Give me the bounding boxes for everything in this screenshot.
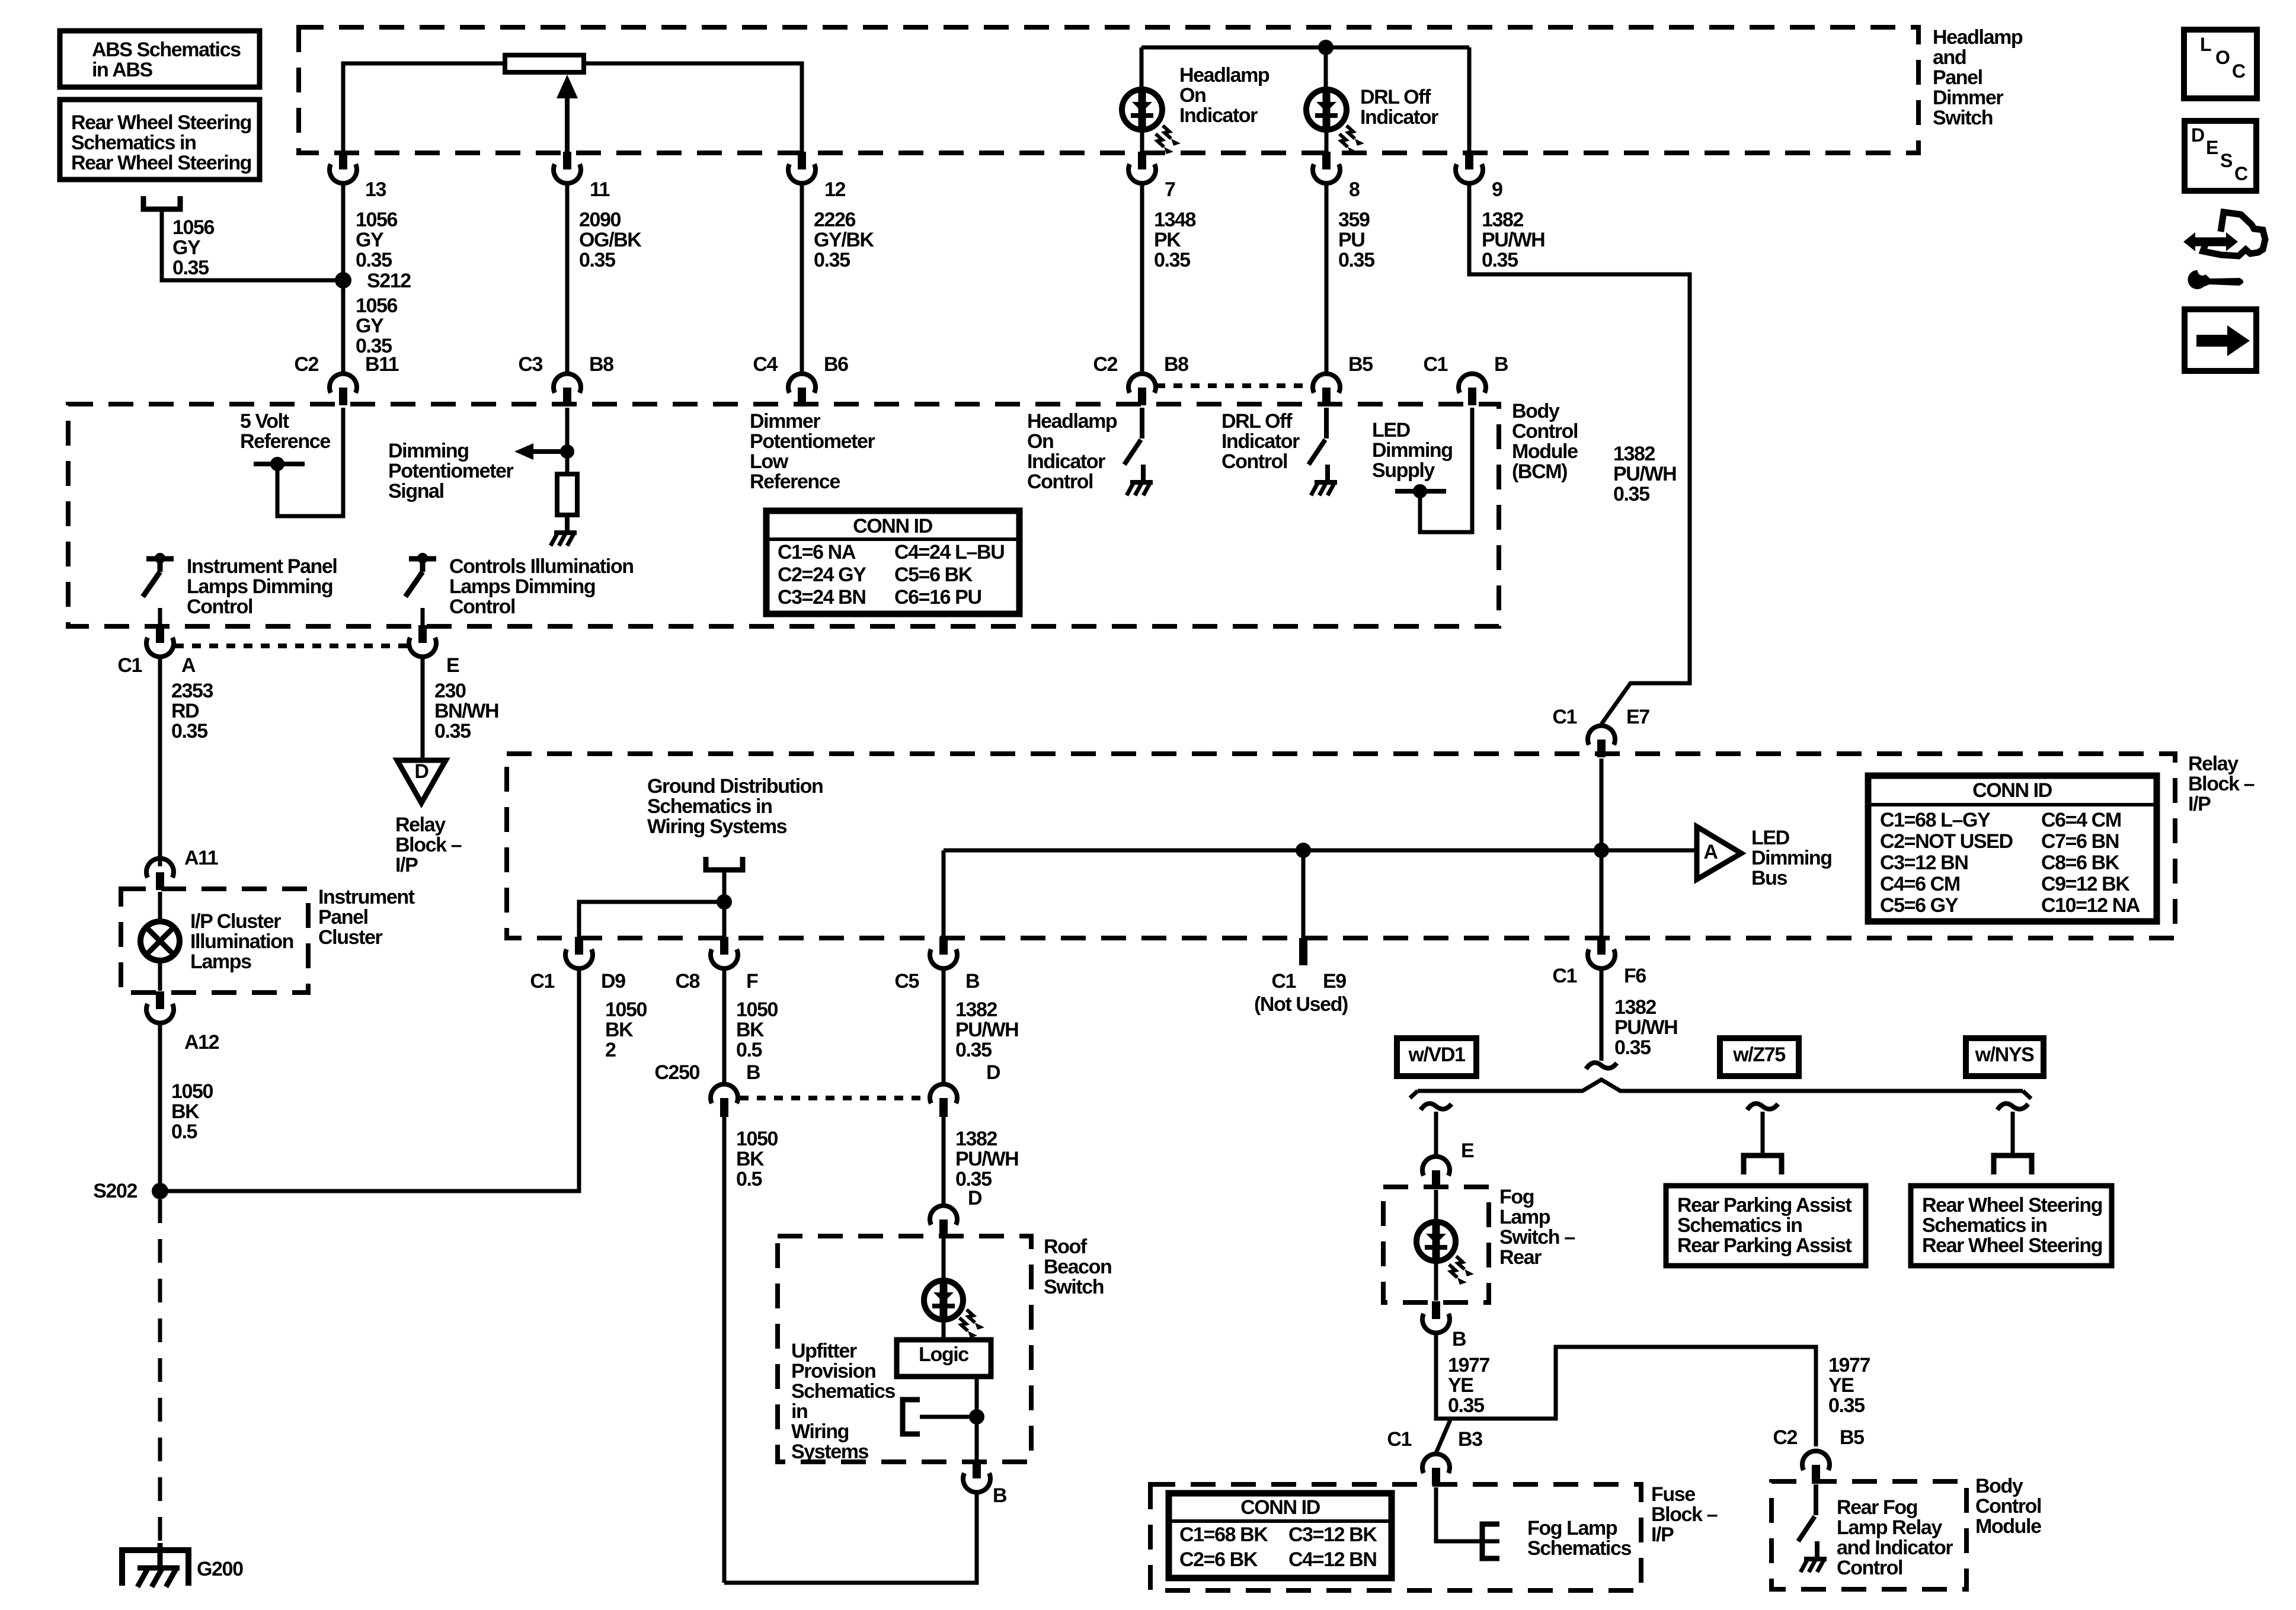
connector B below roof beacon switch bbox=[973, 1461, 981, 1478]
svg-text:0.35: 0.35 bbox=[1614, 1036, 1651, 1059]
svg-text:S202: S202 bbox=[93, 1180, 137, 1202]
svg-text:Block –: Block – bbox=[395, 834, 462, 856]
connector D into roof beacon switch bbox=[939, 1219, 948, 1237]
svg-text:Instrument: Instrument bbox=[318, 886, 415, 908]
svg-text:C2=NOT USED: C2=NOT USED bbox=[1880, 830, 2013, 853]
dotted link C2/B8 to B5 bbox=[1156, 383, 1312, 388]
svg-text:C3: C3 bbox=[518, 353, 542, 376]
svg-text:Rear Parking Assist: Rear Parking Assist bbox=[1677, 1234, 1851, 1257]
svg-text:1348: 1348 bbox=[1154, 209, 1196, 231]
squiggle w/Z75 branch bbox=[1747, 1103, 1778, 1110]
svg-text:Control: Control bbox=[449, 596, 515, 618]
svg-text:5 Volt: 5 Volt bbox=[240, 410, 289, 433]
triangle reference A (led dimming bus) bbox=[1697, 827, 1741, 879]
svg-text:YE: YE bbox=[1448, 1374, 1473, 1397]
off-page bracket ground distribution bbox=[706, 857, 743, 870]
svg-text:(Not Used): (Not Used) bbox=[1254, 993, 1348, 1016]
svg-text:0.35: 0.35 bbox=[434, 720, 471, 742]
LED Headlamp On Indicator bbox=[1122, 89, 1162, 130]
dashed box: Fog Lamp Switch - Rear bbox=[1383, 1187, 1489, 1302]
reference box: Rear Wheel Steering Schematics bbox=[60, 100, 260, 180]
svg-text:BK: BK bbox=[736, 1148, 765, 1170]
svg-text:Rear: Rear bbox=[1499, 1246, 1542, 1269]
svg-text:C10=12 NA: C10=12 NA bbox=[2041, 894, 2140, 917]
connector E below BCM bbox=[418, 625, 427, 643]
option box w/VD1 bbox=[1397, 1038, 1476, 1076]
svg-text:A: A bbox=[181, 654, 196, 677]
svg-text:2: 2 bbox=[605, 1039, 616, 1061]
LED light arrows (roof beacon) bbox=[967, 1310, 975, 1323]
svg-text:Indicator: Indicator bbox=[1179, 104, 1258, 127]
svg-text:D: D bbox=[2191, 124, 2204, 146]
svg-text:D9: D9 bbox=[601, 970, 625, 993]
svg-text:D: D bbox=[414, 760, 428, 783]
node bus junction E9 bbox=[1296, 843, 1311, 858]
bracket rear parking assist bbox=[1744, 1156, 1782, 1174]
svg-text:D: D bbox=[968, 1187, 982, 1209]
connector C3/B8 into BCM bbox=[563, 388, 571, 405]
svg-text:A12: A12 bbox=[184, 1031, 219, 1054]
svg-text:1382: 1382 bbox=[955, 998, 997, 1021]
conn id table (relay block) bbox=[1868, 776, 2157, 921]
svg-text:A: A bbox=[1703, 841, 1718, 863]
svg-text:1382: 1382 bbox=[1482, 209, 1524, 231]
svg-text:0.5: 0.5 bbox=[171, 1121, 197, 1143]
svg-text:C3=12 BN: C3=12 BN bbox=[1880, 852, 1968, 874]
connector C1/F6 below relay block bbox=[1597, 937, 1606, 955]
svg-text:Headlamp: Headlamp bbox=[1179, 64, 1269, 87]
svg-text:Rear Fog: Rear Fog bbox=[1837, 1496, 1917, 1519]
svg-text:GY: GY bbox=[356, 315, 384, 337]
potentiometer resistor bbox=[505, 55, 584, 72]
LED light arrows (drl off) bbox=[1347, 126, 1355, 139]
svg-text:Module: Module bbox=[1512, 440, 1578, 463]
dotted link C1/A to E bbox=[175, 644, 409, 648]
svg-text:230: 230 bbox=[434, 680, 466, 702]
svg-text:0.5: 0.5 bbox=[736, 1039, 762, 1061]
wire lamp leads bbox=[158, 892, 162, 921]
svg-text:B5: B5 bbox=[1348, 353, 1373, 376]
svg-text:(BCM): (BCM) bbox=[1512, 460, 1567, 483]
connector C1/D9 below relay block bbox=[575, 937, 583, 955]
svg-text:Beacon: Beacon bbox=[1044, 1256, 1111, 1278]
svg-text:1977: 1977 bbox=[1828, 1354, 1870, 1377]
svg-text:PU/WH: PU/WH bbox=[955, 1148, 1018, 1170]
node S202 bbox=[152, 1183, 168, 1199]
connector E fog lamp switch bbox=[1432, 1170, 1440, 1188]
svg-text:A11: A11 bbox=[184, 847, 218, 869]
svg-text:Fog Lamp: Fog Lamp bbox=[1527, 1517, 1617, 1539]
connector pin 8 bbox=[1322, 152, 1331, 169]
svg-text:Lamps Dimming: Lamps Dimming bbox=[449, 575, 595, 598]
wire headlamp indicator feed bbox=[1141, 46, 1469, 50]
svg-text:Indicator: Indicator bbox=[1027, 450, 1105, 473]
svg-text:Rear Parking Assist: Rear Parking Assist bbox=[1677, 1194, 1851, 1217]
svg-text:w/VD1: w/VD1 bbox=[1408, 1044, 1465, 1066]
wire ground distribution to junction bbox=[722, 870, 727, 938]
svg-text:Block –: Block – bbox=[1651, 1503, 1718, 1526]
svg-text:Ground Distribution: Ground Distribution bbox=[647, 775, 823, 798]
svg-text:Headlamp: Headlamp bbox=[1027, 410, 1117, 433]
connector pin 13 bbox=[339, 152, 347, 169]
wire 1050 BK 0.5 to S202 bbox=[158, 1023, 162, 1191]
svg-text:C5=6 GY: C5=6 GY bbox=[1880, 894, 1959, 917]
wire 1382 PU/WH below D bbox=[942, 1117, 946, 1204]
svg-text:ABS Schematics: ABS Schematics bbox=[92, 39, 241, 61]
svg-text:1050: 1050 bbox=[736, 1128, 778, 1150]
svg-text:C9=12 BK: C9=12 BK bbox=[2041, 873, 2130, 895]
svg-text:Rear Wheel Steering: Rear Wheel Steering bbox=[1922, 1234, 2102, 1257]
svg-text:S: S bbox=[2220, 150, 2233, 171]
fog lamp schematics bracket bbox=[1482, 1524, 1499, 1558]
conn id table (fuse block) bbox=[1169, 1493, 1392, 1578]
wire D pin to LED bbox=[942, 1238, 946, 1280]
svg-text:C1=6 NA: C1=6 NA bbox=[778, 541, 856, 564]
svg-text:Panel: Panel bbox=[318, 906, 368, 929]
svg-text:359: 359 bbox=[1338, 209, 1370, 231]
svg-text:Schematics: Schematics bbox=[1527, 1537, 1631, 1560]
wire 5V ref to pin B11 bbox=[277, 408, 343, 516]
svg-text:1056: 1056 bbox=[356, 209, 398, 231]
svg-text:C4=6 CM: C4=6 CM bbox=[1880, 873, 1960, 895]
ground (rear fog relay) bbox=[1815, 1541, 1819, 1559]
wire w/NYS branch bbox=[2011, 1112, 2015, 1156]
switch: drl off indicator control bbox=[1324, 408, 1329, 438]
svg-text:Provision: Provision bbox=[791, 1360, 875, 1382]
wire pot left lead to pin 13 bbox=[343, 63, 505, 153]
svg-text:0.35: 0.35 bbox=[579, 249, 615, 271]
dotted link C250/B to D bbox=[740, 1096, 929, 1100]
connector C1/E7 into relay block bbox=[1597, 740, 1606, 757]
svg-text:Block –: Block – bbox=[2188, 773, 2255, 795]
node junction upfitter bbox=[969, 1409, 984, 1425]
svg-text:C3=24 BN: C3=24 BN bbox=[778, 586, 866, 609]
svg-text:Signal: Signal bbox=[388, 480, 444, 502]
svg-text:LED: LED bbox=[1751, 827, 1790, 849]
svg-text:C4=12 BN: C4=12 BN bbox=[1288, 1548, 1377, 1571]
wire 1382 PU/WH to conn D bbox=[942, 968, 946, 1084]
svg-text:Relay: Relay bbox=[395, 814, 446, 836]
svg-text:C1: C1 bbox=[1271, 970, 1296, 993]
svg-text:G200: G200 bbox=[197, 1558, 243, 1580]
reference box: Rear Wheel Steering (bottom) bbox=[1911, 1186, 2112, 1266]
svg-text:Body: Body bbox=[1975, 1475, 2023, 1497]
svg-text:8: 8 bbox=[1349, 178, 1360, 201]
svg-text:Upfitter: Upfitter bbox=[791, 1340, 857, 1362]
svg-text:I/P: I/P bbox=[2188, 793, 2211, 815]
LED fog lamp switch bbox=[1416, 1222, 1456, 1261]
svg-text:Body: Body bbox=[1512, 400, 1560, 422]
svg-text:On: On bbox=[1027, 430, 1053, 453]
switch: headlamp on indicator control bbox=[1140, 408, 1144, 438]
connector pin 12 bbox=[798, 152, 806, 169]
svg-text:PK: PK bbox=[1154, 229, 1181, 251]
wire 1056 GY from bracket to S212 bbox=[162, 209, 343, 280]
connector D inline bbox=[930, 1084, 957, 1103]
svg-text:9: 9 bbox=[1492, 178, 1502, 201]
svg-text:1050: 1050 bbox=[171, 1080, 213, 1103]
node junction ground distribution bbox=[717, 894, 732, 910]
connector C4/B6 into BCM bbox=[798, 388, 806, 405]
svg-text:1382: 1382 bbox=[1614, 996, 1657, 1019]
svg-text:B: B bbox=[965, 970, 980, 993]
svg-text:RD: RD bbox=[171, 700, 199, 722]
connector A12 below IP cluster bbox=[156, 991, 164, 1009]
svg-text:Dimming: Dimming bbox=[1751, 847, 1832, 869]
svg-text:Schematics: Schematics bbox=[791, 1380, 895, 1403]
node junction on indicator feed bbox=[1318, 40, 1334, 55]
wire 1977 YE from fog B bbox=[1436, 1333, 1816, 1446]
svg-text:DRL Off: DRL Off bbox=[1221, 410, 1293, 433]
svg-text:PU: PU bbox=[1338, 229, 1364, 251]
svg-text:C1: C1 bbox=[1423, 353, 1447, 376]
svg-text:Bus: Bus bbox=[1751, 867, 1787, 889]
wire S202 to relay block ground pin bbox=[160, 969, 579, 1191]
svg-text:Indicator: Indicator bbox=[1221, 430, 1300, 453]
wire 1382 PU/WH from pin 9 to BCM area bbox=[1469, 183, 1690, 724]
resistor in BCM (dimming) bbox=[557, 474, 577, 515]
svg-text:Headlamp: Headlamp bbox=[1933, 26, 2023, 49]
connector C250/B inline bbox=[711, 1084, 738, 1103]
logic box bbox=[897, 1340, 991, 1377]
wire down to DRL Off LED bbox=[1324, 47, 1328, 89]
potentiometer wiper arrow bbox=[565, 95, 570, 153]
connector pin 11 bbox=[563, 152, 571, 169]
svg-text:0.5: 0.5 bbox=[736, 1168, 762, 1190]
wire 1056 GY pin13 to S212 bbox=[341, 183, 346, 372]
svg-text:C250: C250 bbox=[654, 1061, 699, 1084]
svg-text:C2=24 GY: C2=24 GY bbox=[778, 564, 866, 586]
svg-text:F: F bbox=[746, 970, 758, 993]
svg-text:BK: BK bbox=[171, 1100, 200, 1123]
svg-text:Lamp Relay: Lamp Relay bbox=[1837, 1516, 1942, 1539]
svg-text:BN/WH: BN/WH bbox=[434, 700, 498, 722]
upfitter bracket bbox=[903, 1400, 920, 1434]
wire 2226 GY/BK bbox=[800, 183, 804, 372]
svg-text:in ABS: in ABS bbox=[92, 59, 153, 81]
svg-text:C6=4 CM: C6=4 CM bbox=[2041, 809, 2121, 831]
svg-text:0.35: 0.35 bbox=[1448, 1394, 1484, 1417]
svg-text:7: 7 bbox=[1165, 178, 1175, 201]
svg-text:Switch: Switch bbox=[1933, 107, 1993, 129]
dimming potentiometer signal arrow bbox=[533, 449, 567, 454]
svg-text:E: E bbox=[446, 654, 459, 677]
svg-text:Control: Control bbox=[1512, 420, 1578, 443]
svg-text:Switch: Switch bbox=[1044, 1276, 1104, 1298]
connector C2/B8 into BCM (headlamp on) bbox=[1138, 388, 1146, 405]
svg-text:13: 13 bbox=[365, 178, 386, 201]
wire LED to logic box bbox=[942, 1320, 946, 1340]
option box w/NYS bbox=[1966, 1038, 2044, 1076]
icon box DESC bbox=[2185, 121, 2256, 191]
svg-text:B: B bbox=[746, 1061, 760, 1084]
svg-text:DRL Off: DRL Off bbox=[1360, 86, 1431, 108]
wire fog LED to box bottom bbox=[1434, 1262, 1438, 1301]
svg-text:B8: B8 bbox=[589, 353, 613, 376]
svg-text:and: and bbox=[1933, 46, 1966, 69]
dashed box: Fuse Block - I/P bbox=[1150, 1484, 1641, 1590]
ground (drl off control) bbox=[1325, 465, 1330, 482]
svg-text:Instrument Panel: Instrument Panel bbox=[187, 555, 337, 578]
wire break symbol bbox=[1586, 1062, 1617, 1069]
svg-text:YE: YE bbox=[1828, 1374, 1854, 1397]
connector C1/B into BCM (led dimming supply) bbox=[1468, 388, 1476, 405]
svg-text:Cluster: Cluster bbox=[318, 926, 383, 949]
connector C2/B5 into BCM (rear fog) bbox=[1812, 1465, 1820, 1483]
svg-text:C: C bbox=[2234, 163, 2248, 184]
branch split wire bbox=[1418, 1080, 2023, 1091]
svg-text:1382: 1382 bbox=[1613, 443, 1655, 465]
svg-text:OG/BK: OG/BK bbox=[579, 229, 642, 251]
svg-text:C4: C4 bbox=[753, 353, 778, 376]
wire 2353 RD bbox=[158, 657, 162, 866]
wire 230 BN/WH bbox=[421, 657, 425, 758]
wire E pin to fog LED bbox=[1434, 1190, 1438, 1222]
svg-text:B11: B11 bbox=[365, 353, 399, 376]
svg-text:1977: 1977 bbox=[1448, 1354, 1490, 1377]
wire below DRL LED bbox=[1325, 130, 1329, 153]
ground G200 bbox=[122, 1550, 188, 1586]
svg-text:GY: GY bbox=[356, 229, 384, 251]
dashed box: Instrument Panel Cluster bbox=[121, 889, 308, 993]
icon box arrow bbox=[2185, 309, 2256, 371]
svg-text:F6: F6 bbox=[1624, 965, 1646, 987]
svg-text:Rear Wheel Steering: Rear Wheel Steering bbox=[1922, 1194, 2102, 1217]
svg-text:PU/WH: PU/WH bbox=[1614, 1016, 1677, 1039]
wire w/Z75 branch bbox=[1761, 1112, 1765, 1156]
dashed wire S202 to G200 bbox=[158, 1199, 162, 1543]
svg-text:Switch –: Switch – bbox=[1499, 1226, 1575, 1249]
diagonal into C1/B3 bbox=[1436, 1419, 1451, 1453]
connector A11 into IP cluster bbox=[156, 872, 164, 890]
svg-text:B3: B3 bbox=[1458, 1428, 1482, 1451]
svg-text:C: C bbox=[2232, 60, 2246, 82]
wire down to pin 9 bbox=[1467, 47, 1472, 153]
wire roof beacon B to ground chain bbox=[724, 1492, 977, 1583]
svg-text:Dimming: Dimming bbox=[1372, 439, 1453, 462]
svg-text:Roof: Roof bbox=[1044, 1235, 1088, 1258]
svg-text:C2: C2 bbox=[1093, 353, 1117, 376]
connector pin 9 bbox=[1465, 152, 1473, 169]
connector C1/A below BCM bbox=[156, 625, 164, 643]
svg-text:B5: B5 bbox=[1840, 1426, 1864, 1449]
svg-text:Relay: Relay bbox=[2188, 753, 2239, 775]
wire pot signal into BCM bbox=[565, 408, 570, 474]
svg-text:Rear Wheel Steering: Rear Wheel Steering bbox=[71, 152, 251, 174]
svg-text:I/P: I/P bbox=[1651, 1523, 1674, 1546]
svg-text:11: 11 bbox=[590, 178, 610, 201]
reference box: ABS Schematics in ABS bbox=[60, 31, 260, 87]
connector pin 7 bbox=[1138, 152, 1146, 169]
svg-text:Lamp: Lamp bbox=[1499, 1206, 1550, 1228]
svg-text:C1=68 BK: C1=68 BK bbox=[1179, 1523, 1268, 1546]
icon box LOC bbox=[2184, 30, 2257, 98]
dashed box: Headlamp and Panel Dimmer Switch bbox=[299, 27, 1918, 153]
svg-text:BK: BK bbox=[605, 1019, 634, 1041]
wire junction to C1/D9 bbox=[579, 902, 724, 938]
svg-text:C2=6 BK: C2=6 BK bbox=[1179, 1548, 1258, 1571]
wire resistor to ground bbox=[565, 515, 570, 530]
wire down to Headlamp On LED bbox=[1140, 47, 1144, 89]
svg-text:D: D bbox=[986, 1061, 1000, 1084]
svg-text:CONN ID: CONN ID bbox=[853, 515, 933, 537]
svg-text:C1: C1 bbox=[1387, 1428, 1411, 1451]
svg-text:Module: Module bbox=[1975, 1515, 2041, 1538]
wire 1382 PU/WH to break bbox=[1600, 968, 1604, 1061]
switch: instrument panel lamps dimming control bbox=[146, 556, 174, 562]
svg-text:C6=16 PU: C6=16 PU bbox=[894, 586, 981, 609]
wire pot right lead to pin 12 bbox=[584, 63, 802, 153]
svg-text:Controls Illumination: Controls Illumination bbox=[449, 555, 634, 578]
svg-text:12: 12 bbox=[824, 178, 846, 201]
svg-text:1050: 1050 bbox=[605, 998, 647, 1021]
svg-text:C2: C2 bbox=[294, 353, 318, 376]
svg-text:Wiring: Wiring bbox=[791, 1420, 849, 1443]
svg-text:Control: Control bbox=[187, 596, 252, 618]
svg-text:Systems: Systems bbox=[791, 1441, 869, 1463]
svg-text:0.35: 0.35 bbox=[172, 257, 209, 279]
wire 1050 BK 0.5 to C250 bbox=[722, 968, 727, 1084]
wire 1050 BK 0.5 below C250 bbox=[722, 1117, 727, 1583]
connector C5/B below relay block bbox=[939, 937, 948, 955]
svg-text:PU/WH: PU/WH bbox=[1482, 229, 1544, 251]
svg-text:C8=6 BK: C8=6 BK bbox=[2041, 852, 2120, 874]
svg-text:w/NYS: w/NYS bbox=[1975, 1044, 2035, 1066]
svg-text:1056: 1056 bbox=[356, 295, 398, 317]
wire 1348 PK bbox=[1140, 183, 1144, 372]
svg-text:On: On bbox=[1179, 84, 1205, 107]
svg-text:Wiring Systems: Wiring Systems bbox=[647, 815, 787, 838]
LED roof beacon bbox=[924, 1281, 963, 1320]
svg-text:Indicator: Indicator bbox=[1360, 106, 1438, 129]
connector C1/B3 into fuse block bbox=[1432, 1468, 1440, 1486]
bracket rear wheel steering bbox=[1994, 1156, 2032, 1174]
svg-text:E7: E7 bbox=[1626, 706, 1649, 728]
stub to C1/E9 bbox=[1302, 850, 1306, 938]
svg-text:0.35: 0.35 bbox=[814, 249, 850, 271]
switch: controls illumination lamps dimming control bbox=[409, 556, 436, 562]
icon vehicle with arrow and wrench bbox=[2203, 212, 2265, 256]
svg-text:CONN ID: CONN ID bbox=[1972, 779, 2052, 802]
svg-text:Reference: Reference bbox=[750, 470, 840, 493]
triangle reference D (relay block) bbox=[397, 760, 446, 803]
svg-text:Potentiometer: Potentiometer bbox=[750, 430, 875, 453]
node S212 bbox=[335, 272, 351, 289]
svg-text:L: L bbox=[2200, 34, 2211, 55]
svg-text:C1: C1 bbox=[117, 654, 142, 677]
svg-text:0.35: 0.35 bbox=[955, 1039, 992, 1061]
svg-text:Supply: Supply bbox=[1372, 459, 1435, 482]
svg-text:E: E bbox=[1461, 1140, 1474, 1162]
svg-text:Fog: Fog bbox=[1499, 1186, 1534, 1208]
connector B below fog lamp switch bbox=[1432, 1301, 1440, 1319]
svg-text:Lamps: Lamps bbox=[190, 950, 251, 973]
svg-text:Illumination: Illumination bbox=[190, 930, 293, 953]
dashed box: Roof Beacon Switch bbox=[778, 1236, 1031, 1462]
wire 359 PU bbox=[1325, 183, 1329, 372]
dashed box: Relay Block - I/P bbox=[507, 754, 2175, 938]
svg-text:GY/BK: GY/BK bbox=[814, 229, 875, 251]
svg-text:C8: C8 bbox=[675, 970, 699, 993]
wire E7 to bus to F6 bbox=[1600, 758, 1604, 938]
svg-text:C2: C2 bbox=[1773, 1426, 1797, 1449]
svg-text:1056: 1056 bbox=[172, 216, 215, 239]
ground symbol (dimming signal) bbox=[565, 515, 570, 533]
svg-text:0.35: 0.35 bbox=[1613, 483, 1649, 505]
led dimming supply stub bbox=[1395, 489, 1446, 494]
LED light arrows (fog) bbox=[1456, 1256, 1464, 1269]
switch: rear fog lamp relay bbox=[1814, 1484, 1818, 1515]
